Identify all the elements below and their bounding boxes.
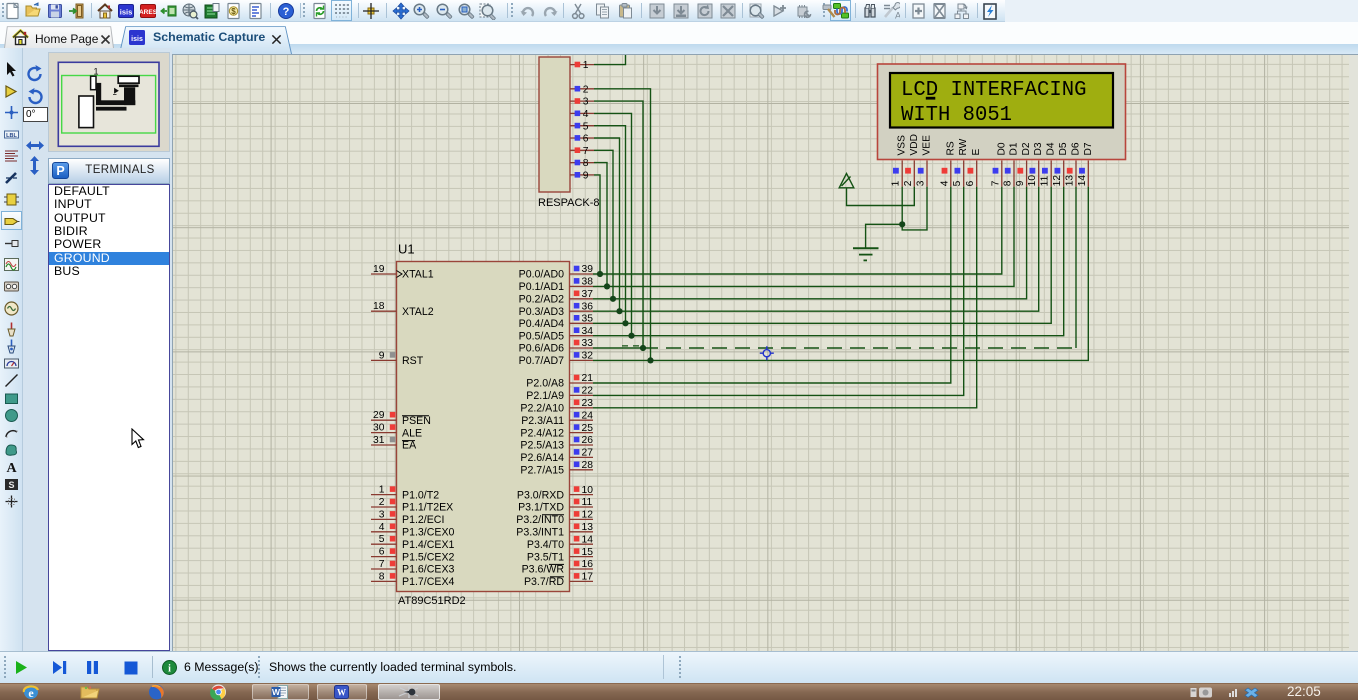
svg-text:E: E [971,149,982,156]
svg-text:8: 8 [583,158,589,169]
svg-text:6: 6 [379,547,385,558]
svg-text:$: $ [231,7,236,16]
wire RESPACK pin7 vertical [594,150,613,298]
U1 pin 26 P2.5/A13 [570,444,594,446]
RESPACK pin 3 [570,100,594,102]
U1 pin 15 P3.5/T1 [570,556,594,558]
U1 pin 13 P3.3/INT1 [570,531,594,533]
left toolbar: voltage probe mode [3,321,20,338]
svg-text:P1.7/CEX4: P1.7/CEX4 [402,576,455,588]
svg-text:EA: EA [402,440,417,452]
svg-text:P2.5/A13: P2.5/A13 [520,440,564,452]
svg-text:P0.0/AD0: P0.0/AD0 [519,269,564,281]
U1 pin 16 P3.6/WR [570,568,594,570]
left toolbar: subcircuit mode [3,191,20,208]
svg-text:27: 27 [582,448,594,459]
U1 pin 22 P2.1/A9 [570,394,594,396]
wire RESPACK pin8 vertical [594,163,607,287]
svg-text:33: 33 [582,338,594,349]
svg-text:e: e [28,686,34,700]
U1 pin 2 P1.1/T2EX [371,506,397,508]
tab bar [0,22,1358,48]
U1 pin 19 XTAL1 [371,273,397,275]
svg-text:2: 2 [583,84,589,95]
wire P0.0 to LCD D0 [593,187,1002,274]
wire RESPACK pin6 vertical [594,138,620,311]
U1 pin 39 P0.0/AD0 [570,273,594,275]
U1 pin 8 P1.7/CEX4 [371,580,397,582]
U1 pin 34 P0.5/AD5 [570,335,594,337]
RESPACK pin 8 [570,162,594,164]
svg-text:38: 38 [582,277,594,288]
U1 pin 12 P3.2/INT0 [570,518,594,520]
U1 pin 25 P2.4/A12 [570,432,594,434]
svg-text:P1.1/T2EX: P1.1/T2EX [402,502,453,514]
wire P0.4 to LCD D4 [593,187,1051,324]
wire P0.3 to LCD D3 [593,187,1039,312]
svg-text:RW: RW [958,138,969,155]
svg-text:isis: isis [120,8,133,17]
svg-text:5: 5 [952,180,963,186]
svg-text:D5: D5 [1058,142,1069,155]
wire P0.7 to LCD D7 [593,187,1088,361]
svg-text:P2.4/A12: P2.4/A12 [520,427,564,439]
svg-text:P2.6/A14: P2.6/A14 [520,452,564,464]
svg-text:1: 1 [583,60,589,71]
svg-text:P3.0/RXD: P3.0/RXD [517,489,564,501]
U1 pin 21 P2.0/A8 [570,382,594,384]
route icon pressed box [830,0,851,21]
svg-text:RS: RS [945,141,956,155]
left toolbar: generator mode [3,300,20,317]
svg-text:PSEN: PSEN [402,415,431,427]
svg-text:P1.2/ECI: P1.2/ECI [402,514,444,526]
wire P0.5 to LCD D5 [593,187,1064,336]
RESPACK pin 5 [570,125,594,127]
wire LCD VSS to ground node [901,187,903,225]
svg-text:29: 29 [373,410,385,421]
svg-text:XTAL2: XTAL2 [402,306,434,318]
svg-text:isis: isis [131,36,143,43]
svg-text:XTAL1: XTAL1 [402,269,434,281]
U1 pin 30 ALE [371,432,397,434]
svg-text:18: 18 [373,301,385,312]
svg-text:23: 23 [582,398,594,409]
RESPACK pin 9 [570,174,594,176]
svg-text:D4: D4 [1046,142,1057,155]
mouse arrow cursor [131,428,145,450]
U1 pin 24 P2.3/A11 [570,419,594,421]
LCD cursor block [926,97,936,100]
left toolbar: graph mode [3,256,20,273]
svg-text:11: 11 [1040,175,1051,186]
svg-text:P2.7/A15: P2.7/A15 [520,465,564,477]
svg-text:U1: U1 [398,242,415,257]
svg-text:10: 10 [582,485,594,496]
RESPACK pin 2 [570,88,594,90]
svg-text:D3: D3 [1033,142,1044,155]
RESPACK pin 1 [570,64,594,66]
wire P0.2 to LCD D2 [593,187,1027,299]
left toolbar: 2D symbol mode [3,476,20,493]
svg-text:25: 25 [582,423,594,434]
toolbar group separators [91,3,92,18]
svg-text:i: i [168,664,171,675]
svg-text:?: ? [283,6,290,18]
svg-text:21: 21 [582,373,594,384]
svg-text:P2.0/A8: P2.0/A8 [526,378,564,390]
U1 pin 3 P1.2/ECI [371,518,397,520]
svg-text:35: 35 [582,314,594,325]
junction dots [597,221,905,363]
svg-text:P2.3/A11: P2.3/A11 [521,415,564,427]
left toolbar: selection mode [3,61,20,78]
RESPACK pin 4 [570,112,594,114]
svg-text:AT89C51RD2: AT89C51RD2 [398,595,466,607]
svg-text:P0.5/AD5: P0.5/AD5 [519,330,564,342]
svg-text:WITH 8051: WITH 8051 [901,104,1012,127]
left toolbar: 2D text mode [3,458,20,475]
svg-text:4: 4 [939,180,950,186]
resistor pack RP (RESPACK-8) [538,57,600,209]
svg-text:3: 3 [379,509,385,520]
wire P2.0 to LCD pin4 [593,187,951,383]
left toolbar: junction dot mode [3,104,20,121]
U1 pin 27 P2.6/A14 [570,456,594,458]
U1 pin 1 P1.0/T2 [371,494,397,496]
wire RESPACK pin9 vertical [594,175,600,274]
svg-text:ARES: ARES [139,9,157,16]
svg-text:VSS: VSS [897,135,908,156]
svg-text:1: 1 [94,67,99,77]
svg-text:A: A [895,11,900,21]
svg-text:7: 7 [990,180,1001,186]
ground symbol [853,248,879,260]
left toolbar: 2D line mode [3,372,20,389]
U1 pin 38 P0.1/AD1 [570,285,594,287]
svg-text:P2.1/A9: P2.1/A9 [526,390,564,402]
svg-text:2: 2 [903,180,914,186]
U1 pin 33 P0.6/AD6 [570,347,594,349]
svg-text:12: 12 [582,510,594,521]
U1 pin 11 P3.1/TXD [570,506,594,508]
wire P2.2 to LCD pin6 [593,187,977,408]
svg-text:6: 6 [965,180,976,186]
svg-text:3: 3 [916,180,927,186]
U1 pin 29 PSEN [371,419,397,421]
svg-text:P3.1/TXD: P3.1/TXD [518,502,564,514]
svg-text:14: 14 [582,534,594,545]
svg-text:ALE: ALE [402,427,422,439]
svg-text:RST: RST [402,355,424,367]
svg-text:P3.6/WR: P3.6/WR [522,564,565,576]
windows taskbar [0,683,1358,700]
svg-text:12: 12 [1052,175,1063,187]
svg-text:16: 16 [582,559,594,570]
wire P2.1 to LCD pin5 [593,187,964,396]
svg-text:7: 7 [583,146,589,157]
svg-text:32: 32 [582,351,594,362]
svg-text:13: 13 [582,522,594,533]
wire node to LCD VEE [902,187,927,230]
U1 pin 10 P3.0/RXD [570,494,594,496]
svg-text:36: 36 [582,301,594,312]
svg-text:D7: D7 [1083,142,1094,155]
left toolbar: bus mode [3,170,20,187]
svg-text:VEE: VEE [922,135,933,156]
wire RESPACK pin2 vertical [594,89,651,361]
svg-text:P0.2/AD2: P0.2/AD2 [519,294,564,306]
svg-text:P2.2/A10: P2.2/A10 [520,403,564,415]
power terminal symbol [839,174,854,188]
U1 pin 7 P1.6/CEX3 [371,568,397,570]
left toolbar: 2D box mode [3,390,20,407]
top toolbar [0,0,1005,22]
svg-text:9: 9 [379,350,385,361]
svg-text:P0.6/AD6: P0.6/AD6 [519,343,564,355]
U1 pin 35 P0.4/AD4 [570,322,594,324]
left toolbar: 2D circle mode [3,407,20,424]
svg-text:LBL: LBL [6,133,17,139]
svg-text:P1.4/CEX1: P1.4/CEX1 [402,539,455,551]
svg-text:2: 2 [379,497,385,508]
svg-text:31: 31 [373,435,385,446]
svg-text:8: 8 [379,571,385,582]
U1 XTAL1 clock symbol [397,271,403,278]
status bar [0,651,1358,683]
svg-text:P0.7/AD7: P0.7/AD7 [519,355,564,367]
svg-text:19: 19 [373,264,385,275]
svg-text:14: 14 [1077,175,1088,187]
U1 pin 28 P2.7/A15 [570,469,594,471]
overview minimap [48,52,170,152]
rotation controls [25,64,45,84]
svg-text:P3.5/T1: P3.5/T1 [527,551,564,563]
svg-text:S: S [8,480,14,490]
svg-text:10: 10 [1027,175,1038,187]
svg-text:P1.5/CEX2: P1.5/CEX2 [402,551,455,563]
svg-text:8: 8 [1003,180,1014,186]
svg-text:7: 7 [379,559,385,570]
svg-text:11: 11 [582,497,593,508]
svg-text:22: 22 [582,386,594,397]
svg-text:34: 34 [582,326,594,337]
terminals panel [48,158,170,184]
svg-text:28: 28 [582,460,594,471]
svg-text:9: 9 [583,171,589,182]
left toolbar: 2D arc mode [3,424,20,441]
svg-text:P3.7/RD: P3.7/RD [524,576,564,588]
schematic canvas [172,54,1358,651]
U1 pin 23 P2.2/A10 [570,407,594,409]
svg-text:5: 5 [379,534,385,545]
U1 pin 17 P3.7/RD [570,580,594,582]
svg-text:P0.4/AD4: P0.4/AD4 [519,318,564,330]
svg-text:D1: D1 [1009,142,1020,155]
svg-text:P3.3/INT1: P3.3/INT1 [516,527,564,539]
svg-text:W: W [337,688,346,698]
svg-text:24: 24 [582,410,594,421]
svg-text:4: 4 [583,109,589,120]
svg-text:37: 37 [582,289,594,300]
svg-text:A: A [6,461,17,475]
svg-text:P0.1/AD1: P0.1/AD1 [519,281,564,293]
svg-text:P1.6/CEX3: P1.6/CEX3 [402,564,455,576]
svg-text:P0.3/AD3: P0.3/AD3 [519,306,564,318]
svg-text:30: 30 [373,423,385,434]
wire power terminal to LCD VDD [847,187,915,206]
svg-text:9: 9 [1015,180,1026,186]
svg-text:D2: D2 [1021,142,1032,155]
grid icon pressed box [331,0,352,21]
svg-text:D6: D6 [1071,142,1082,155]
U1 pin 32 P0.7/AD7 [570,359,594,361]
left toolbar: virtual instrument mode [3,355,20,372]
U1 pin 37 P0.2/AD2 [570,298,594,300]
wire ground node left-down [866,224,903,248]
sheet right margin [1349,55,1358,651]
svg-text:15: 15 [582,547,594,558]
U1 pin 6 P1.5/CEX2 [371,556,397,558]
svg-text:3: 3 [583,97,589,108]
svg-text:RESPACK-8: RESPACK-8 [538,197,600,209]
left toolbar: terminal mode [1,211,22,230]
op U1 AT89C51RD2 microcontroller [371,242,593,608]
svg-text:26: 26 [582,435,594,446]
wire RESPACK pin1 to top [594,55,626,65]
wire P0.1 to LCD D1 [593,187,1014,287]
U1 pin 9 RST [371,359,397,361]
wire RESPACK pin3 vertical [594,101,643,348]
U1 pin 4 P1.3/CEX0 [371,531,397,533]
svg-text:17: 17 [582,572,594,583]
svg-text:P3.2/INT0: P3.2/INT0 [516,514,564,526]
left toolbar: 2D marker mode [3,493,20,510]
left toolbar: text script mode [3,148,20,165]
RESPACK pin 6 [570,137,594,139]
left tool strip [0,48,23,651]
U1 pin 5 P1.4/CEX1 [371,543,397,545]
wire RESPACK pin5 vertical [594,126,626,324]
left toolbar: device pin mode [3,235,20,252]
svg-text:5: 5 [583,121,589,132]
svg-text:W: W [272,687,281,697]
wire RESPACK pin4 vertical [594,113,632,335]
svg-text:D0: D0 [996,142,1007,155]
wire P0.6 to LCD D6 (partly dashed) [593,347,643,349]
blue crosshair cursor [760,346,774,360]
left toolbar: wire label mode [3,126,20,143]
U1 pin 31 EA [371,444,397,446]
LCD display LM016L [878,64,1126,187]
left toolbar: current probe mode [3,338,20,355]
RESPACK pin 7 [570,149,594,151]
svg-text:P1.0/T2: P1.0/T2 [402,489,439,501]
svg-text:P3.4/T0: P3.4/T0 [527,539,564,551]
svg-text:39: 39 [582,264,594,275]
svg-text:4: 4 [379,522,385,533]
left toolbar: tape recorder mode [3,278,20,295]
svg-text:1: 1 [379,485,385,496]
U1 pin 36 P0.3/AD3 [570,310,594,312]
left toolbar: component mode [3,83,20,100]
left toolbar: 2D path mode [3,441,20,458]
dashed wire segment (drag preview on P0.6 net) [643,347,1076,349]
svg-text:VDD: VDD [909,134,920,156]
U1 pin 14 P3.4/T0 [570,543,594,545]
svg-text:6: 6 [583,134,589,145]
U1 pin 18 XTAL2 [371,310,397,312]
svg-text:1: 1 [891,180,902,186]
svg-text:P1.3/CEX0: P1.3/CEX0 [402,527,455,539]
svg-text:13: 13 [1065,175,1076,187]
